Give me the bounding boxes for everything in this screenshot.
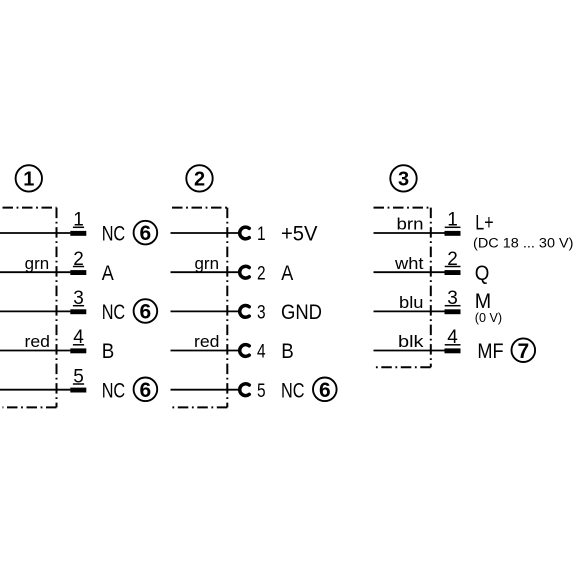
- wire connector2 pin 2: [171, 271, 240, 273]
- socket contact connector2 pin 5: [240, 384, 250, 396]
- svg-text:2: 2: [257, 262, 266, 284]
- svg-text:3: 3: [398, 169, 409, 191]
- terminal bar connector1 pin 3: [70, 309, 86, 314]
- svg-text:blu: blu: [399, 294, 424, 312]
- connector 1 housing (dash-dot housing outline): [3, 208, 57, 408]
- svg-text:L+: L+: [475, 212, 493, 235]
- svg-text:blk: blk: [398, 333, 424, 351]
- pin number 1 connector1: [73, 210, 84, 231]
- wire connector1 pin 3: [0, 310, 70, 312]
- pin number 3 connector1: [73, 288, 84, 309]
- wire connector2 pin 4: [171, 350, 240, 352]
- svg-text:grn: grn: [195, 255, 220, 273]
- pin number 4 connector1: [73, 327, 84, 348]
- terminal bar connector1 pin 4: [70, 348, 86, 353]
- connector 3 housing (dash-dot housing outline): [374, 208, 431, 368]
- svg-text:NC: NC: [102, 223, 126, 246]
- pin number 2 connector3: [445, 249, 461, 270]
- svg-text:4: 4: [257, 341, 266, 363]
- svg-text:6: 6: [319, 379, 331, 402]
- terminal bar connector3 pin 4: [445, 348, 461, 353]
- pin number 4 connector3: [445, 327, 461, 348]
- svg-text:(DC 18 ... 30 V): (DC 18 ... 30 V): [473, 236, 574, 251]
- svg-text:1: 1: [257, 223, 266, 245]
- terminal bar connector3 pin 2: [445, 270, 461, 275]
- svg-text:2: 2: [194, 169, 205, 191]
- wire connector1 pin 5: [0, 389, 70, 391]
- svg-text:red: red: [25, 333, 51, 351]
- connector designator circle 3: [390, 165, 416, 191]
- svg-text:6: 6: [140, 301, 152, 324]
- wire connector1 pin 2: [0, 271, 70, 273]
- svg-text:grn: grn: [25, 255, 50, 273]
- svg-text:6: 6: [140, 222, 152, 245]
- svg-text:A: A: [281, 262, 293, 285]
- pin number 1 connector3: [445, 210, 461, 231]
- svg-text:A: A: [102, 262, 114, 285]
- wire connector2 pin 1: [171, 232, 240, 234]
- svg-text:3: 3: [257, 302, 266, 324]
- terminal bar connector3 pin 1: [445, 231, 461, 236]
- callout 7 (pin4 MF): [512, 338, 536, 362]
- wire connector3 pin 4 (blk): [374, 350, 445, 352]
- socket contact connector2 pin 4: [240, 345, 250, 357]
- pin number 2 connector1: [73, 249, 84, 270]
- callout 6 (pin5 connector1): [134, 378, 158, 402]
- connector designator circle 2: [186, 165, 212, 191]
- terminal bar connector1 pin 5: [70, 388, 86, 393]
- svg-text:brn: brn: [397, 216, 424, 234]
- terminal bar connector1 pin 1: [70, 231, 86, 236]
- terminal bar connector1 pin 2: [70, 270, 86, 275]
- svg-text:B: B: [281, 340, 294, 363]
- svg-text:wht: wht: [394, 255, 424, 273]
- wire connector1 pin 1: [0, 232, 70, 234]
- svg-text:NC: NC: [281, 379, 305, 402]
- wire connector2 pin 3: [171, 310, 240, 312]
- svg-text:MF: MF: [477, 340, 503, 363]
- svg-text:red: red: [194, 333, 220, 351]
- callout 6 (pin5 connector2): [313, 378, 337, 402]
- wire connector1 pin 4: [0, 350, 70, 352]
- svg-text:NC: NC: [102, 301, 126, 324]
- connector designator circle 1: [16, 165, 42, 191]
- svg-text:+5V: +5V: [281, 223, 318, 246]
- wire connector3 pin 1 (brn): [374, 232, 445, 234]
- svg-text:B: B: [102, 340, 115, 363]
- pin number 5 connector1: [73, 366, 84, 387]
- svg-text:M: M: [475, 290, 491, 313]
- wire connector3 pin 2 (wht): [374, 271, 445, 273]
- svg-text:7: 7: [517, 340, 529, 363]
- terminal bar connector3 pin 3: [445, 309, 461, 314]
- socket contact connector2 pin 1: [240, 227, 250, 239]
- svg-text:5: 5: [257, 380, 266, 402]
- callout 6 (pin3 connector1): [134, 299, 158, 323]
- wire connector3 pin 3 (blu): [374, 310, 445, 312]
- pin number 3 connector3: [445, 288, 461, 309]
- svg-text:1: 1: [23, 169, 34, 191]
- connector 2 housing (dash-dot housing outline): [172, 208, 227, 408]
- callout 6 (pin1 connector1): [134, 221, 158, 245]
- socket contact connector2 pin 2: [240, 266, 250, 278]
- svg-text:GND: GND: [281, 301, 322, 324]
- svg-text:NC: NC: [102, 379, 126, 402]
- socket contact connector2 pin 3: [240, 306, 250, 318]
- svg-text:(0 V): (0 V): [475, 311, 502, 325]
- svg-text:Q: Q: [475, 262, 490, 285]
- svg-text:6: 6: [140, 379, 152, 402]
- wire connector2 pin 5: [171, 389, 240, 391]
